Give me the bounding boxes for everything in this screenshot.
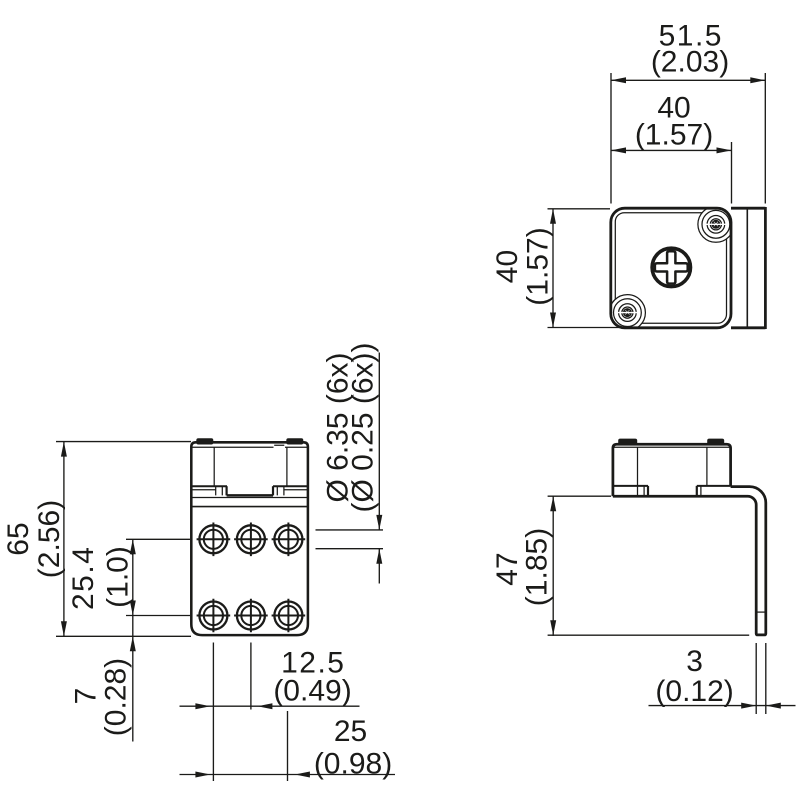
corner screw top-right ring <box>707 216 725 234</box>
svg-text:(0.98): (0.98) <box>314 748 392 781</box>
front outline <box>191 442 308 635</box>
sensor side line right (front) <box>286 447 288 486</box>
svg-text:47: 47 <box>491 552 524 585</box>
mounting flange right edge <box>764 207 767 329</box>
svg-text:(0.49): (0.49) <box>273 675 351 708</box>
central phillips cross <box>655 251 688 283</box>
top view outline <box>611 208 731 328</box>
corner screw bottom-left ring <box>619 304 637 322</box>
svg-text:(1.57): (1.57) <box>635 119 713 152</box>
step lines right (front) <box>277 486 284 495</box>
svg-text:65: 65 <box>2 522 35 555</box>
mounting flange bend line <box>746 210 748 327</box>
dimension 51.5 (2.03) <box>610 73 612 204</box>
screw boss (bottom-left) <box>614 299 642 327</box>
sensor side line left (front) <box>213 447 215 486</box>
notch bottom line (front) <box>227 494 273 497</box>
corner screw top-right center <box>711 220 720 229</box>
svg-text:7: 7 <box>70 688 103 705</box>
corner screw top-right slot <box>706 223 727 225</box>
leg hole line (side) <box>756 611 766 613</box>
svg-text:(2.56): (2.56) <box>33 500 66 578</box>
step thick right (front) <box>272 486 274 495</box>
dimension 25.4 (1.0) <box>126 538 190 540</box>
sensor top line (side) <box>613 446 731 448</box>
svg-text:(1.57): (1.57) <box>522 227 555 305</box>
mounting flange bottom edge <box>731 326 765 329</box>
dimension 3 (0.12) <box>755 643 757 714</box>
sensor body outline (side) <box>613 444 731 496</box>
corner screw bottom-left inner ring <box>622 307 633 318</box>
dimension 12.5 (0.49) <box>212 643 214 782</box>
hole row2 col3 <box>272 599 306 633</box>
sensor tab left (side) <box>618 439 637 446</box>
screw boss (top-right) <box>702 210 730 238</box>
svg-text:40: 40 <box>491 250 524 283</box>
bracket L profile (side) <box>613 487 766 635</box>
screw boss arc outer (top-right) <box>698 206 734 242</box>
hole row2 col1 <box>197 599 231 633</box>
sensor inner line left (side) <box>637 447 639 496</box>
step thick left (front) <box>226 486 228 495</box>
svg-text:25: 25 <box>334 715 367 748</box>
dimension 40 (1.57) horizontal <box>731 142 733 204</box>
svg-text:25.4: 25.4 <box>67 546 100 610</box>
svg-text:(0.12): (0.12) <box>655 675 733 708</box>
dimension 7 (0.28) <box>130 636 136 651</box>
bracket edge left (front) <box>191 489 215 491</box>
sensor tab right (side) <box>707 439 724 446</box>
svg-text:(0.28): (0.28) <box>100 658 133 736</box>
corner screw top-right inner ring <box>710 219 721 230</box>
screw boss arc outer (bottom-left) <box>609 295 645 331</box>
svg-text:(Ø 0.25 (6x)): (Ø 0.25 (6x)) <box>347 342 380 512</box>
mounting flange top edge <box>731 207 765 210</box>
step lines left (front) <box>216 486 223 495</box>
svg-text:(1.85): (1.85) <box>520 528 553 606</box>
sensor shoulder left (side) <box>613 485 648 487</box>
svg-text:3: 3 <box>686 645 703 678</box>
hole diameter callout <box>316 529 384 531</box>
hole row2 col2 <box>234 599 268 633</box>
sensor top line (front) <box>191 445 308 447</box>
corner screw bottom-left center <box>623 308 632 317</box>
dimension 40 (1.57) vertical <box>548 208 611 210</box>
step thick lines (side) <box>648 486 697 496</box>
sensor tab left (front) <box>196 438 213 444</box>
dimension 25 (0.98) <box>180 774 396 776</box>
dimension 47 (1.85) <box>548 495 611 497</box>
hole row1 col1 <box>197 523 231 557</box>
sensor shoulder right (side) <box>697 485 731 487</box>
dimension 65 (2.56) <box>56 441 191 443</box>
corner screw bottom-left slot <box>617 312 638 314</box>
central screw circle <box>652 248 690 286</box>
sensor bottom shoulder left (front) <box>191 485 227 487</box>
sensor bottom shoulder right (front) <box>273 485 308 487</box>
bend line 1 (front) <box>191 497 308 499</box>
step thin lines (side) <box>644 487 701 497</box>
svg-text:(2.03): (2.03) <box>651 46 729 79</box>
hole row1 col3 <box>272 523 306 557</box>
svg-text:(1.0): (1.0) <box>102 546 135 608</box>
bend line 2 (front) <box>191 506 308 508</box>
sensor tab right (front) <box>286 438 303 444</box>
bracket edge right (front) <box>284 489 308 491</box>
top view inner contour <box>615 213 726 324</box>
sensor inner line right (side) <box>706 447 708 486</box>
hole row1 col2 <box>234 523 268 557</box>
